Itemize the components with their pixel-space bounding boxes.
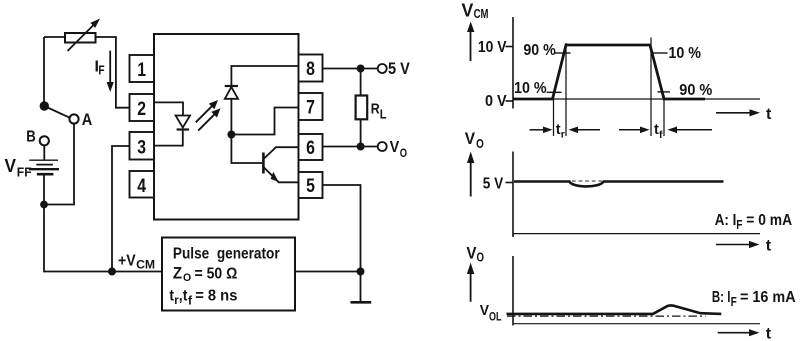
rise start marker line — [553, 97, 555, 136]
terminal 5V — [378, 64, 387, 73]
svg-text:O: O — [400, 148, 407, 160]
VCM vertical axis — [512, 17, 514, 109]
svg-text:,t: ,t — [179, 288, 188, 305]
VO-A vertical axis — [512, 152, 514, 238]
svg-text:= 16 mA: = 16 mA — [740, 289, 796, 306]
wire base node to transistor base — [231, 135, 262, 164]
tick 10V — [506, 46, 514, 48]
svg-text:Z: Z — [173, 265, 182, 283]
switch pole node — [40, 101, 49, 110]
wire pin3 to VCM node — [112, 146, 130, 272]
svg-text:5 V: 5 V — [388, 60, 410, 78]
wire battery to node — [43, 175, 45, 205]
svg-text:B: I: B: I — [712, 289, 731, 306]
svg-text:= 0 mA: = 0 mA — [746, 212, 792, 229]
svg-text:3: 3 — [137, 137, 146, 158]
tf right arrow — [668, 127, 713, 134]
svg-text:90 %: 90 % — [523, 42, 555, 59]
wire left vertical — [43, 37, 45, 106]
pin 2 — [130, 94, 155, 121]
ground — [351, 301, 372, 304]
svg-text:8: 8 — [306, 59, 315, 80]
svg-text:F: F — [736, 218, 742, 232]
fall end marker line — [663, 95, 665, 136]
pin 1 — [130, 55, 155, 82]
node ground rail — [357, 268, 365, 276]
pulse generator text — [169, 246, 279, 308]
t axis arrow — [716, 109, 760, 116]
10 % right dash — [652, 52, 668, 54]
wire pin8 to 5V — [323, 68, 378, 70]
svg-text:Pulse generator: Pulse generator — [173, 246, 280, 263]
svg-text:V: V — [462, 0, 474, 20]
label +VCM — [118, 253, 155, 272]
label RL — [371, 102, 387, 122]
wire pulse generator to ground node — [295, 271, 361, 273]
label VO — [390, 139, 407, 160]
svg-text:1: 1 — [137, 60, 146, 81]
pin 4 — [130, 171, 155, 198]
svg-text:O: O — [183, 272, 192, 284]
svg-text:r: r — [561, 129, 565, 141]
VO-B waveform with bump — [507, 305, 722, 314]
VCM waveform trapezoid — [513, 45, 705, 99]
IC body — [154, 34, 299, 220]
svg-text:O: O — [477, 251, 485, 265]
svg-text:5 V: 5 V — [483, 176, 504, 193]
transistor Q1 — [263, 147, 298, 182]
node VO — [357, 143, 365, 151]
svg-text:F: F — [731, 295, 737, 309]
svg-text:0 V: 0 V — [485, 93, 507, 110]
label VO plot3 — [466, 244, 484, 265]
label A: IF = 0 mA — [715, 212, 793, 232]
svg-text:= 50 Ω: = 50 Ω — [195, 266, 238, 283]
tick 5V — [506, 182, 514, 184]
svg-text:CM: CM — [136, 258, 155, 272]
svg-text:+V: +V — [118, 253, 136, 270]
svg-text:5: 5 — [306, 176, 315, 197]
svg-text:F: F — [98, 64, 104, 78]
wire pin5 to ground — [323, 185, 361, 302]
svg-text:CM: CM — [474, 7, 489, 21]
wire node down to VCM rail — [44, 205, 162, 272]
light arrow 2 — [198, 108, 220, 130]
IF arrow — [107, 51, 114, 92]
label tr — [556, 122, 565, 140]
svg-text:OL: OL — [489, 311, 502, 323]
t arrow plot3 — [718, 329, 760, 336]
dash-dot VOL line — [507, 315, 706, 317]
wire 5V node to RL — [360, 69, 362, 96]
VCM time axis — [513, 98, 760, 100]
svg-text:A: A — [82, 110, 93, 129]
wire pin2 to LED — [154, 102, 183, 115]
VO-A time axis — [513, 233, 760, 235]
label tf — [654, 122, 663, 141]
light arrow 1 — [196, 100, 218, 122]
switch blade — [44, 106, 70, 118]
node +VCM — [108, 268, 116, 276]
svg-text:6: 6 — [306, 138, 315, 159]
90 % right dash — [658, 91, 671, 93]
svg-text:t: t — [766, 106, 772, 123]
wire A down — [44, 124, 74, 205]
svg-text:V: V — [5, 156, 17, 176]
svg-text:= 8 ns: = 8 ns — [195, 288, 237, 305]
tick 0V — [506, 100, 514, 102]
t arrow plot2 — [716, 241, 760, 248]
pin 5 — [299, 172, 323, 198]
label VO plot2 — [465, 129, 484, 151]
terminal VO — [378, 142, 387, 151]
label VCM — [462, 0, 489, 21]
wire LED to pin3 — [154, 130, 183, 146]
pulse generator box — [162, 238, 295, 311]
90 % left dash — [555, 52, 571, 54]
svg-text:t: t — [169, 288, 174, 305]
LED D1 — [176, 116, 190, 130]
tf left arrow — [619, 127, 650, 134]
resistor RL — [356, 96, 368, 120]
wire B to battery — [43, 145, 45, 159]
svg-text:V: V — [480, 302, 489, 319]
svg-text:L: L — [380, 108, 387, 122]
svg-text:4: 4 — [137, 176, 146, 197]
label IF — [95, 59, 105, 78]
tr left arrow — [530, 127, 553, 134]
svg-text:t: t — [766, 238, 772, 255]
tr right arrow — [569, 127, 601, 134]
svg-text:t: t — [766, 325, 772, 341]
pin 6 — [299, 134, 323, 160]
wire pin6 to VO — [323, 146, 378, 148]
svg-text:f: f — [659, 129, 663, 141]
svg-text:10 %: 10 % — [668, 45, 701, 62]
VO-B vertical axis — [512, 256, 514, 326]
svg-text:V: V — [466, 244, 477, 263]
pin 3 — [130, 132, 155, 160]
node 5V — [357, 65, 365, 73]
label B: IF = 16 mA — [712, 289, 796, 309]
svg-text:7: 7 — [306, 98, 315, 119]
fall start marker line — [650, 38, 652, 137]
VO-A waveform with dip — [514, 182, 724, 187]
wire resistor to pin2 — [96, 37, 130, 108]
pin 8 — [299, 55, 323, 82]
node battery bottom — [40, 201, 48, 209]
svg-text:V: V — [390, 139, 400, 156]
svg-text:2: 2 — [137, 99, 146, 120]
10 % left dash — [547, 91, 562, 93]
svg-text:FF: FF — [17, 165, 32, 180]
label VOL — [480, 302, 502, 323]
wire top-left — [44, 36, 65, 38]
switch terminal B — [40, 136, 49, 145]
variable resistor — [65, 19, 100, 52]
VCM up arrow — [467, 22, 474, 62]
svg-text:R: R — [371, 102, 380, 118]
svg-text:f: f — [188, 295, 192, 307]
photodiode — [225, 86, 238, 99]
dashed ideal line over dip — [572, 180, 603, 182]
wire RL to VO node — [360, 120, 362, 147]
wire photodiode to base node — [230, 99, 232, 135]
VO-A up arrow — [467, 152, 474, 197]
svg-text:V: V — [465, 129, 476, 148]
svg-text:10 V: 10 V — [478, 39, 507, 56]
VO-B time axis — [513, 323, 760, 325]
battery VFF — [29, 160, 59, 174]
VO-B up arrow — [467, 263, 474, 302]
svg-text:90 %: 90 % — [679, 82, 712, 99]
svg-text:B: B — [26, 128, 36, 145]
wire base node to pin7 — [231, 108, 298, 135]
label VFF — [5, 156, 32, 180]
wire photodiode to pin8 rail — [231, 66, 298, 86]
pin 7 — [299, 93, 323, 120]
svg-text:O: O — [476, 137, 484, 151]
base node — [227, 131, 235, 139]
rise end marker line — [565, 43, 567, 136]
svg-text:10 %: 10 % — [514, 80, 547, 97]
svg-text:A: I: A: I — [715, 212, 737, 229]
switch terminal A — [69, 114, 78, 123]
